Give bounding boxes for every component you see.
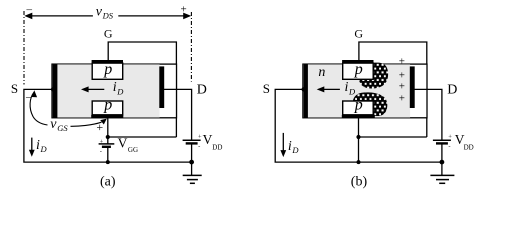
svg-text:+: + bbox=[448, 134, 452, 141]
svg-text:D: D bbox=[348, 87, 356, 97]
svg-text:p: p bbox=[354, 61, 363, 78]
svg-text:i: i bbox=[288, 139, 292, 154]
svg-text:p: p bbox=[354, 97, 363, 114]
svg-text:D: D bbox=[447, 82, 457, 97]
svg-text:V: V bbox=[118, 135, 128, 150]
svg-text:+: + bbox=[198, 134, 202, 141]
svg-text:n: n bbox=[318, 65, 325, 80]
svg-text:+: + bbox=[399, 56, 405, 68]
svg-text:GG: GG bbox=[128, 146, 138, 154]
svg-text:+: + bbox=[96, 120, 103, 134]
svg-text:G: G bbox=[354, 26, 363, 40]
svg-text:i: i bbox=[113, 80, 117, 95]
svg-text:D: D bbox=[197, 82, 207, 97]
svg-text:DD: DD bbox=[212, 144, 222, 152]
svg-text:–: – bbox=[26, 4, 33, 16]
svg-text:i: i bbox=[36, 138, 40, 153]
svg-text:(a): (a) bbox=[100, 174, 116, 189]
svg-text:i: i bbox=[345, 80, 349, 95]
svg-text:+: + bbox=[399, 93, 405, 105]
svg-text:D: D bbox=[40, 144, 48, 154]
svg-text:+: + bbox=[399, 81, 405, 93]
svg-text:+: + bbox=[181, 4, 187, 16]
svg-text:GS: GS bbox=[57, 123, 68, 133]
svg-text:D: D bbox=[291, 145, 299, 155]
svg-text:S: S bbox=[263, 81, 270, 96]
svg-text:V: V bbox=[203, 132, 213, 147]
svg-text:p: p bbox=[103, 61, 112, 78]
svg-text:-: - bbox=[198, 143, 200, 150]
svg-text:DS: DS bbox=[102, 11, 114, 21]
svg-text:G: G bbox=[104, 26, 113, 40]
svg-text:S: S bbox=[11, 81, 18, 96]
svg-text:v: v bbox=[50, 117, 57, 132]
svg-text:-: - bbox=[448, 143, 450, 150]
svg-text:p: p bbox=[103, 97, 112, 114]
svg-text:–: – bbox=[25, 91, 32, 103]
svg-text:+: + bbox=[100, 139, 104, 146]
svg-text:DD: DD bbox=[464, 144, 474, 152]
svg-text:-: - bbox=[100, 148, 102, 155]
svg-text:(b): (b) bbox=[351, 174, 368, 189]
svg-text:D: D bbox=[116, 87, 124, 97]
